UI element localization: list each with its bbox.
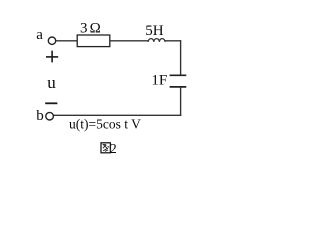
svg-text:5H: 5H	[145, 23, 164, 39]
wire inductor to corner	[165, 40, 181, 42]
wire bottom	[54, 114, 182, 116]
svg-text:u: u	[47, 73, 56, 92]
capacitor C top plate	[170, 74, 187, 76]
wire right vertical top	[180, 40, 182, 75]
svg-text:u(t)=5cos t V: u(t)=5cos t V	[69, 117, 141, 132]
node b terminal circle	[46, 112, 54, 120]
svg-text:Ω: Ω	[90, 21, 101, 37]
caption figure 2 : hanzi tu drawn as glyph	[101, 143, 110, 153]
wire resistor to inductor	[110, 40, 148, 42]
node a terminal circle	[48, 37, 55, 44]
resistor R 3ohm	[77, 35, 110, 47]
svg-text:3: 3	[80, 21, 88, 37]
wire a to resistor	[56, 40, 77, 42]
inductor L 5H coil	[148, 39, 165, 42]
minus sign of port voltage	[45, 102, 57, 104]
svg-text:a: a	[36, 27, 43, 43]
svg-text:2: 2	[110, 142, 117, 157]
plus sign of port voltage	[46, 56, 58, 58]
svg-text:b: b	[36, 108, 44, 124]
svg-text:1F: 1F	[151, 72, 167, 88]
wire right vertical bottom	[180, 88, 182, 116]
capacitor C bottom plate	[170, 86, 187, 88]
